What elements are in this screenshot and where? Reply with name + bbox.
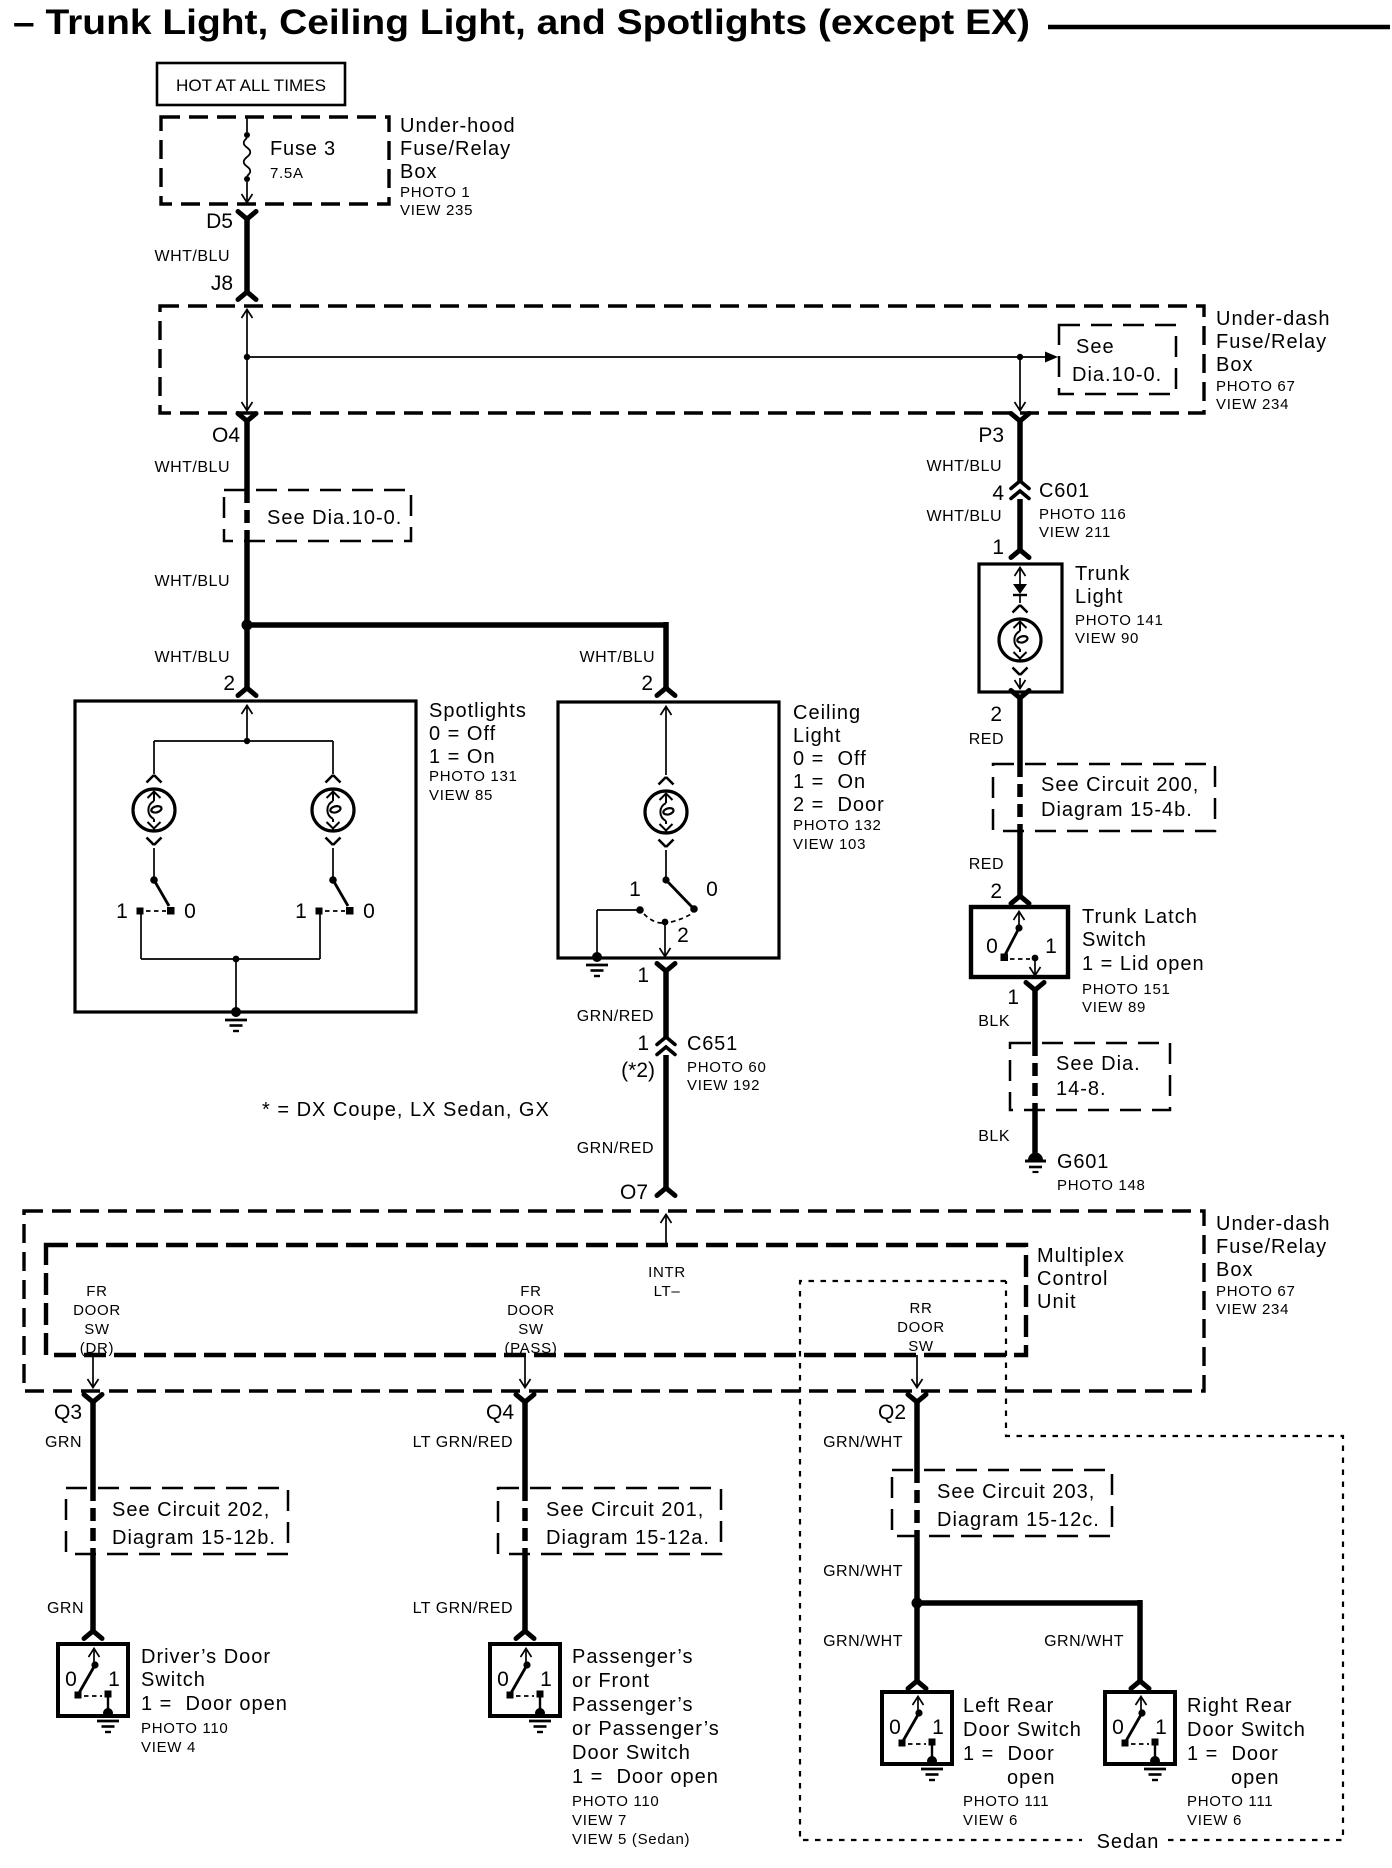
svg-text:RED: RED	[969, 731, 1004, 748]
svg-text:LT GRN/RED: LT GRN/RED	[413, 1434, 513, 1451]
svg-text:VIEW 5 (Sedan): VIEW 5 (Sedan)	[572, 1831, 690, 1848]
svg-text:1: 1	[108, 1668, 120, 1691]
svg-text:Door Switch: Door Switch	[1187, 1719, 1306, 1741]
see circuit 202 reference box	[66, 1488, 288, 1554]
svg-text:GRN/WHT: GRN/WHT	[823, 1563, 903, 1580]
left rear door switch internals	[889, 1697, 944, 1781]
svg-text:2: 2	[990, 703, 1002, 726]
svg-text:Sedan: Sedan	[1097, 1831, 1160, 1853]
svg-text:VIEW 235: VIEW 235	[400, 202, 473, 219]
svg-text:PHOTO 110: PHOTO 110	[572, 1793, 659, 1810]
svg-text:GRN: GRN	[45, 1434, 82, 1451]
right rear door switch box	[1105, 1692, 1306, 1829]
svg-text:2 = Door: 2 = Door	[793, 794, 885, 816]
svg-text:1: 1	[992, 536, 1004, 559]
svg-text:FR: FR	[520, 1283, 541, 1300]
svg-text:See Dia.10-0.: See Dia.10-0.	[267, 507, 402, 529]
svg-text:VIEW 4: VIEW 4	[141, 1739, 196, 1756]
svg-text:VIEW 90: VIEW 90	[1075, 630, 1139, 647]
pin 2 trunk latch	[990, 880, 1029, 904]
multiplex control unit box (dashed)	[46, 1245, 1125, 1355]
svg-text:Q2: Q2	[878, 1401, 906, 1424]
svg-text:Ceiling: Ceiling	[793, 702, 861, 724]
connector P3	[978, 414, 1029, 448]
svg-text:P3: P3	[978, 424, 1004, 447]
svg-text:1: 1	[1155, 1716, 1167, 1739]
svg-text:Under-hood: Under-hood	[400, 115, 516, 137]
net RR DOOR SW	[897, 1300, 945, 1388]
svg-text:Door Switch: Door Switch	[963, 1719, 1082, 1741]
svg-text:0 = Off: 0 = Off	[429, 723, 496, 745]
connector C601 pin 4 to pin 1	[992, 480, 1126, 541]
svg-text:(*2): (*2)	[621, 1059, 655, 1082]
svg-text:VIEW 6: VIEW 6	[1187, 1812, 1242, 1829]
see circuit 200 reference box	[993, 764, 1215, 831]
svg-text:1 = On: 1 = On	[793, 771, 866, 793]
svg-text:Trunk: Trunk	[1075, 563, 1130, 585]
svg-text:Switch: Switch	[1082, 929, 1147, 951]
svg-text:1 = Lid open: 1 = Lid open	[1082, 953, 1205, 975]
svg-text:WHT/BLU: WHT/BLU	[927, 458, 1003, 475]
connector O7	[620, 1181, 675, 1204]
trunk light lamp	[999, 605, 1041, 689]
wire GRN Q3	[45, 1402, 93, 1488]
net FR DOOR SW (PASS)	[504, 1283, 557, 1388]
pin 2 spotlights	[223, 672, 256, 696]
svg-text:or Front: or Front	[572, 1670, 650, 1692]
svg-text:1: 1	[629, 878, 641, 901]
svg-text:RR: RR	[909, 1300, 932, 1317]
svg-text:2: 2	[223, 672, 235, 695]
svg-text:1: 1	[295, 900, 307, 923]
see dia 14-8 reference box	[1010, 1043, 1170, 1110]
wire GRN/WHT to left rear switch	[823, 1603, 926, 1689]
svg-text:C651: C651	[687, 1033, 738, 1055]
spotlights ground	[225, 956, 247, 1031]
svg-text:0: 0	[184, 900, 196, 923]
svg-text:DOOR: DOOR	[507, 1302, 555, 1319]
pin 2 trunk light exit	[990, 691, 1029, 727]
wire WHT/BLU C601 to trunk light	[927, 499, 1021, 550]
svg-text:WHT/BLU: WHT/BLU	[927, 508, 1003, 525]
svg-text:1 = Door: 1 = Door	[963, 1743, 1055, 1765]
ceiling lamp	[645, 777, 687, 847]
svg-text:D5: D5	[206, 210, 233, 233]
ceiling switch	[629, 850, 718, 957]
svg-text:Control: Control	[1037, 1268, 1108, 1290]
svg-text:1: 1	[637, 1032, 649, 1055]
svg-text:Fuse/Relay: Fuse/Relay	[1216, 1236, 1327, 1258]
svg-text:VIEW 89: VIEW 89	[1082, 999, 1146, 1016]
spotlights box	[75, 700, 527, 1012]
title: Trunk Light, Ceiling Light, and Spotlights (except EX)	[13, 3, 1390, 42]
svg-text:7.5A: 7.5A	[270, 165, 304, 182]
connector Q2	[878, 1395, 926, 1425]
svg-text:Dia.10-0.: Dia.10-0.	[1072, 364, 1162, 386]
svg-text:VIEW 211: VIEW 211	[1039, 524, 1111, 541]
svg-text:DOOR: DOOR	[897, 1319, 945, 1336]
svg-text:WHT/BLU: WHT/BLU	[155, 459, 231, 476]
wire LT GRN/RED Q4	[413, 1402, 525, 1488]
ceiling switch ground branch	[586, 910, 640, 976]
wire bus to See Dia.10-0	[247, 352, 1058, 363]
svg-text:(PASS): (PASS)	[504, 1340, 557, 1357]
under-hood fuse/relay box (dashed)	[161, 115, 516, 219]
trunk latch switch internals	[986, 912, 1057, 976]
node junction to ceiling light branch	[242, 620, 253, 631]
svg-text:Diagram 15-4b.: Diagram 15-4b.	[1041, 799, 1193, 821]
node junction rear door wires	[912, 1598, 923, 1609]
connector Q3	[54, 1395, 102, 1425]
see circuit 203 reference box	[892, 1470, 1112, 1536]
svg-text:PHOTO 131: PHOTO 131	[429, 768, 518, 785]
see dia 10-0 reference box (left column)	[224, 490, 411, 541]
svg-text:Right Rear: Right Rear	[1187, 1695, 1293, 1717]
wire RED to trunk latch switch	[969, 831, 1020, 896]
svg-text:WHT/BLU: WHT/BLU	[580, 649, 656, 666]
svg-text:Diagram 15-12c.: Diagram 15-12c.	[937, 1509, 1100, 1531]
svg-text:1 = Door: 1 = Door	[1187, 1743, 1279, 1765]
svg-text:VIEW 192: VIEW 192	[687, 1077, 760, 1094]
svg-text:VIEW 7: VIEW 7	[572, 1812, 627, 1829]
driver's door switch internals	[65, 1649, 120, 1733]
svg-text:VIEW 6: VIEW 6	[963, 1812, 1018, 1829]
svg-text:See Circuit 200,: See Circuit 200,	[1041, 774, 1199, 796]
svg-text:or Passenger’s: or Passenger’s	[572, 1718, 720, 1740]
svg-text:0: 0	[65, 1668, 77, 1691]
svg-text:Spotlights: Spotlights	[429, 700, 527, 722]
wire GRN/WHT Q2	[823, 1402, 917, 1470]
svg-text:0: 0	[889, 1716, 901, 1739]
right spotlight lamp branch	[312, 741, 354, 877]
svg-text:SW: SW	[84, 1321, 110, 1338]
svg-text:VIEW 103: VIEW 103	[793, 836, 866, 853]
wire RED to see circuit 200	[969, 698, 1020, 764]
svg-text:VIEW 85: VIEW 85	[429, 787, 493, 804]
ground G601	[1025, 1151, 1146, 1194]
svg-text:PHOTO 60: PHOTO 60	[687, 1059, 767, 1076]
wire BLK to see dia 14-8	[978, 990, 1035, 1043]
wire branch to ceiling light	[247, 622, 666, 688]
wire GRN/WHT to right rear switch	[917, 1600, 1149, 1689]
svg-text:Q3: Q3	[54, 1401, 82, 1424]
svg-text:Light: Light	[1075, 586, 1123, 608]
svg-text:PHOTO 132: PHOTO 132	[793, 817, 882, 834]
under-dash fuse/relay box (dashed, upper)	[160, 306, 1331, 413]
svg-text:Trunk Latch: Trunk Latch	[1082, 906, 1198, 928]
wire down to P3	[1015, 357, 1026, 411]
svg-text:1 = On: 1 = On	[429, 746, 496, 768]
svg-text:PHOTO 67: PHOTO 67	[1216, 1283, 1296, 1300]
svg-text:1 = Door open: 1 = Door open	[572, 1766, 719, 1788]
connector J8	[211, 272, 256, 300]
wire GRN to driver door switch	[47, 1554, 102, 1639]
svg-text:open: open	[1231, 1767, 1280, 1789]
svg-text:LT GRN/RED: LT GRN/RED	[413, 1600, 513, 1617]
svg-text:0: 0	[363, 900, 375, 923]
pin 1 ceiling exit	[637, 964, 675, 988]
svg-text:1: 1	[932, 1716, 944, 1739]
node junction on bus	[244, 354, 250, 360]
ceiling light box	[558, 702, 885, 958]
svg-text:GRN/WHT: GRN/WHT	[823, 1633, 903, 1650]
passenger's door switch box	[490, 1644, 720, 1848]
connector C651	[621, 1032, 766, 1094]
svg-text:VIEW 234: VIEW 234	[1216, 1301, 1289, 1318]
node O7 entry arrow	[648, 1215, 686, 1301]
svg-text:2: 2	[641, 672, 653, 695]
svg-text:PHOTO 111: PHOTO 111	[963, 1793, 1049, 1810]
svg-text:GRN/RED: GRN/RED	[577, 1140, 654, 1157]
svg-text:See Circuit 203,: See Circuit 203,	[937, 1481, 1095, 1503]
wire WHT/BLU D5 to J8	[155, 219, 248, 292]
wire WHT/BLU below O4	[155, 421, 248, 490]
svg-text:(DR): (DR)	[80, 1340, 114, 1357]
pin 1 trunk light	[992, 536, 1029, 559]
svg-text:WHT/BLU: WHT/BLU	[155, 649, 231, 666]
pin 1 trunk latch exit	[1007, 983, 1044, 1010]
svg-text:Under-dash: Under-dash	[1216, 308, 1331, 330]
svg-text:Passenger’s: Passenger’s	[572, 1646, 693, 1668]
svg-text:0: 0	[497, 1668, 509, 1691]
svg-text:PHOTO 148: PHOTO 148	[1057, 1177, 1146, 1194]
svg-text:0: 0	[986, 935, 998, 958]
svg-text:Box: Box	[1216, 1259, 1253, 1281]
svg-text:Light: Light	[793, 725, 841, 747]
svg-text:RED: RED	[969, 856, 1004, 873]
driver's door switch box	[58, 1644, 288, 1756]
svg-text:LT–: LT–	[654, 1283, 681, 1300]
passenger's door switch internals	[497, 1649, 552, 1733]
svg-text:1: 1	[540, 1668, 552, 1691]
svg-text:* = DX Coupe, LX Sedan, GX: * = DX Coupe, LX Sedan, GX	[262, 1099, 550, 1121]
svg-text:See Circuit 202,: See Circuit 202,	[112, 1499, 270, 1521]
svg-text:O4: O4	[212, 424, 240, 447]
see dia 10-0 reference box (inside under-dash box)	[1059, 325, 1176, 394]
wire WHT/BLU P3 to C601	[927, 421, 1021, 482]
wire LT GRN/RED to passenger door switch	[413, 1554, 534, 1639]
wire GRN/WHT to junction	[823, 1536, 917, 1603]
svg-text:Fuse 3: Fuse 3	[270, 138, 336, 160]
svg-text:0: 0	[706, 878, 718, 901]
svg-text:2: 2	[990, 880, 1002, 903]
svg-text:Diagram 15-12a.: Diagram 15-12a.	[546, 1527, 710, 1549]
svg-text:1: 1	[116, 900, 128, 923]
svg-text:1: 1	[637, 964, 649, 987]
svg-text:GRN/WHT: GRN/WHT	[823, 1434, 903, 1451]
trunk latch switch box	[971, 906, 1205, 1016]
left spotlight lamp branch	[133, 741, 175, 877]
left spotlight switch	[116, 876, 236, 959]
connector D5	[206, 210, 256, 233]
svg-text:– Trunk Light, Ceiling Light,: – Trunk Light, Ceiling Light, and Spotli…	[13, 3, 1030, 42]
svg-text:Q4: Q4	[486, 1401, 514, 1424]
svg-text:4: 4	[992, 482, 1004, 505]
svg-text:SW: SW	[908, 1338, 934, 1355]
svg-text:Passenger’s: Passenger’s	[572, 1694, 693, 1716]
right spotlight switch	[236, 876, 375, 959]
svg-text:WHT/BLU: WHT/BLU	[155, 248, 231, 265]
sedan dotted enclosure	[800, 1281, 1343, 1853]
svg-text:See Circuit 201,: See Circuit 201,	[546, 1499, 704, 1521]
svg-text:PHOTO 116: PHOTO 116	[1039, 506, 1126, 523]
svg-text:INTR: INTR	[648, 1264, 686, 1281]
svg-text:1: 1	[1007, 986, 1019, 1009]
trunk light diode	[1013, 568, 1027, 604]
svg-text:VIEW 234: VIEW 234	[1216, 396, 1289, 413]
svg-text:SW: SW	[518, 1321, 544, 1338]
ceiling entry wire	[661, 707, 672, 776]
fuse F3 7.5A	[242, 117, 336, 203]
svg-text:DOOR: DOOR	[73, 1302, 121, 1319]
svg-text:WHT/BLU: WHT/BLU	[155, 573, 231, 590]
see circuit 201 reference box	[498, 1488, 721, 1554]
left rear door switch box	[882, 1692, 1082, 1829]
svg-text:Box: Box	[1216, 354, 1253, 376]
svg-text:O7: O7	[620, 1181, 648, 1204]
wire GRN/RED to C651	[577, 971, 666, 1038]
right rear door switch internals	[1112, 1697, 1167, 1781]
svg-text:Unit: Unit	[1037, 1291, 1077, 1313]
svg-text:14-8.: 14-8.	[1056, 1078, 1107, 1100]
svg-text:C601: C601	[1039, 480, 1090, 502]
svg-text:Diagram 15-12b.: Diagram 15-12b.	[112, 1527, 276, 1549]
spotlights entry wire	[154, 706, 333, 745]
svg-text:open: open	[1007, 1767, 1056, 1789]
svg-text:Driver’s Door: Driver’s Door	[141, 1646, 271, 1668]
svg-text:Switch: Switch	[141, 1669, 206, 1691]
svg-text:PHOTO 67: PHOTO 67	[1216, 378, 1296, 395]
svg-text:Box: Box	[400, 161, 437, 183]
svg-text:PHOTO 151: PHOTO 151	[1082, 981, 1171, 998]
svg-text:2: 2	[677, 924, 689, 947]
trunk light box	[979, 563, 1164, 692]
wire GRN/RED to O7	[577, 1055, 666, 1188]
wire BLK to G601	[978, 1110, 1035, 1153]
svg-text:GRN/WHT: GRN/WHT	[1044, 1633, 1124, 1650]
svg-text:GRN/RED: GRN/RED	[577, 1008, 654, 1025]
pin 2 ceiling light	[641, 672, 675, 696]
svg-text:PHOTO 141: PHOTO 141	[1075, 612, 1164, 629]
under-dash fuse/relay box (dashed, lower)	[24, 1211, 1331, 1391]
svg-text:See: See	[1076, 336, 1115, 358]
connector O4	[212, 414, 256, 448]
svg-text:See Dia.: See Dia.	[1056, 1053, 1141, 1075]
svg-text:Fuse/Relay: Fuse/Relay	[1216, 331, 1327, 353]
svg-text:0: 0	[1112, 1716, 1124, 1739]
svg-text:Fuse/Relay: Fuse/Relay	[400, 138, 511, 160]
svg-text:GRN: GRN	[47, 1600, 84, 1617]
svg-text:FR: FR	[86, 1283, 107, 1300]
connector Q4	[486, 1395, 534, 1425]
HOT AT ALL TIMES box	[157, 63, 345, 105]
svg-text:0 = Off: 0 = Off	[793, 748, 867, 770]
svg-text:BLK: BLK	[978, 1013, 1010, 1030]
svg-text:PHOTO 111: PHOTO 111	[1187, 1793, 1273, 1810]
svg-text:Multiplex: Multiplex	[1037, 1245, 1125, 1267]
svg-text:Door Switch: Door Switch	[572, 1742, 691, 1764]
svg-text:1: 1	[1045, 935, 1057, 958]
svg-text:HOT AT ALL TIMES: HOT AT ALL TIMES	[176, 76, 326, 95]
svg-text:G601: G601	[1057, 1151, 1109, 1173]
svg-text:BLK: BLK	[978, 1128, 1010, 1145]
svg-text:1 = Door open: 1 = Door open	[141, 1693, 288, 1715]
svg-text:PHOTO 110: PHOTO 110	[141, 1720, 228, 1737]
wire inside under-dash box vertical	[242, 310, 253, 412]
net FR DOOR SW (DR)	[73, 1283, 121, 1388]
wire WHT/BLU to junction	[155, 541, 248, 688]
svg-text:PHOTO 1: PHOTO 1	[400, 184, 470, 201]
svg-text:Left Rear: Left Rear	[963, 1695, 1054, 1717]
svg-text:J8: J8	[211, 272, 233, 295]
svg-text:Under-dash: Under-dash	[1216, 1213, 1331, 1235]
